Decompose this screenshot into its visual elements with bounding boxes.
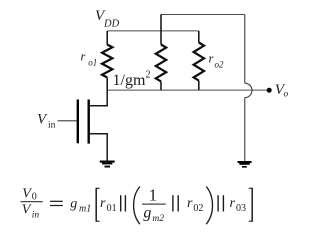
formula left paren — [134, 187, 140, 225]
node Vo dot — [267, 88, 272, 93]
svg-text:01: 01 — [107, 203, 117, 214]
svg-text:DD: DD — [103, 18, 120, 29]
label ro2 — [209, 51, 225, 69]
transistor M1 drain wire — [90, 90, 108, 106]
ground right — [238, 161, 252, 168]
svg-text:r: r — [81, 50, 86, 64]
formula right paren — [206, 187, 212, 225]
wire right vertical upper — [244, 15, 246, 84]
wire hop arc over output rail — [245, 83, 252, 97]
transistor M1 channel bar — [87, 100, 89, 144]
svg-text:2: 2 — [146, 70, 151, 81]
svg-text:r: r — [100, 196, 106, 211]
transistor M1 source wire — [90, 134, 108, 161]
svg-text:o1: o1 — [88, 58, 97, 68]
svg-text:g: g — [143, 205, 151, 222]
formula r01 — [100, 196, 117, 214]
svg-text:1: 1 — [149, 186, 157, 205]
label ro1 — [81, 50, 98, 68]
svg-text:m1: m1 — [79, 203, 91, 214]
formula r03 — [230, 196, 247, 214]
wire VDD lower rail — [107, 30, 199, 32]
svg-text:0: 0 — [32, 192, 37, 203]
formula left bracket — [96, 188, 99, 222]
svg-text:r: r — [230, 196, 236, 211]
formula parallel bars 1 — [120, 195, 126, 211]
svg-text:03: 03 — [236, 203, 246, 214]
formula fraction V0/Vin — [21, 187, 43, 221]
svg-text:o: o — [284, 90, 289, 100]
svg-text:in: in — [32, 211, 40, 221]
wire upper rail — [161, 14, 245, 16]
formula equals sign — [50, 201, 63, 206]
resistor ro2 — [194, 31, 204, 90]
label VDD — [95, 8, 120, 29]
svg-text:V: V — [22, 203, 32, 218]
ground left — [100, 161, 115, 168]
svg-text:V: V — [22, 187, 32, 202]
label Vo — [275, 82, 289, 100]
formula inner fraction 1/gm2 — [142, 186, 166, 225]
svg-text:m2: m2 — [152, 214, 164, 224]
formula right bracket — [249, 188, 252, 222]
svg-text:1/gm: 1/gm — [113, 72, 146, 89]
svg-text:V: V — [37, 111, 48, 127]
formula gm1 — [70, 197, 91, 215]
formula parallel bars 2 — [172, 195, 179, 211]
resistor ro1 — [102, 31, 112, 90]
svg-text:g: g — [70, 197, 77, 212]
formula r02 — [187, 196, 203, 214]
transistor M1 gate wire — [58, 120, 77, 122]
label Vin — [37, 111, 56, 130]
svg-text:in: in — [48, 121, 56, 131]
svg-text:r: r — [209, 51, 214, 65]
formula parallel bars 3 — [217, 195, 224, 211]
svg-text:02: 02 — [193, 203, 203, 214]
wire right vertical lower — [244, 98, 246, 161]
wire output rail — [107, 89, 267, 91]
svg-text:r: r — [187, 196, 193, 211]
label 1/gm^2 — [113, 70, 151, 89]
svg-text:o2: o2 — [215, 60, 225, 70]
resistor 1/gm2 (middle) — [156, 15, 166, 91]
transistor M1 gate bar — [77, 100, 79, 144]
